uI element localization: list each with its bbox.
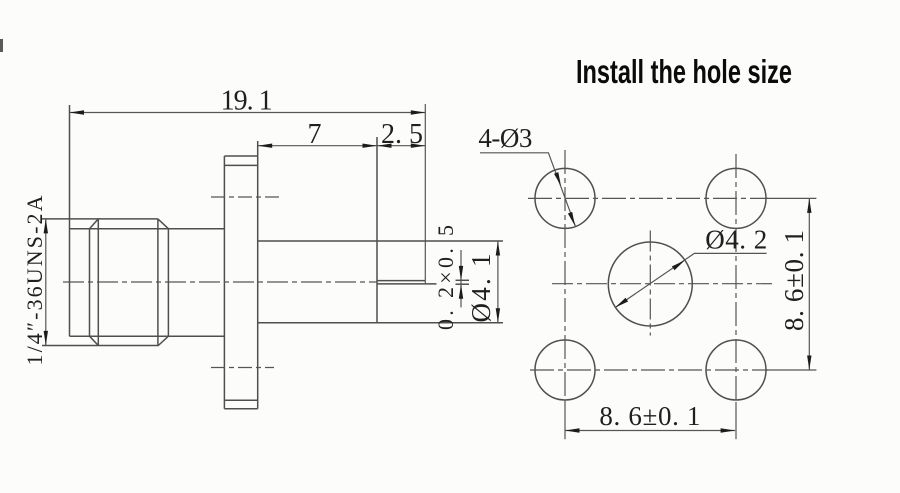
dielectric shaft	[258, 137, 503, 323]
middle row centerline	[552, 283, 772, 285]
flange plate	[224, 141, 257, 409]
svg-text:0. 2×0. 5: 0. 2×0. 5	[433, 225, 458, 330]
hex nut silhouette	[42, 219, 168, 346]
svg-text:Ø4. 1: Ø4. 1	[466, 254, 496, 323]
svg-text:1/4″-36UNS-2A: 1/4″-36UNS-2A	[22, 195, 47, 365]
arrowheads right view	[554, 172, 812, 433]
left column centerline	[564, 150, 566, 402]
mounting hole bottom-right	[706, 340, 766, 400]
label 4-diam3 leader	[480, 153, 576, 227]
diameter 4.2 leader	[615, 253, 766, 307]
mounting hole bottom-left	[535, 340, 595, 400]
thread callout dimension line	[45, 219, 47, 346]
stray mark at left edge	[0, 39, 3, 52]
diameter 4.1 dimension line	[497, 241, 499, 323]
flange hole centerline top	[211, 196, 279, 198]
right column centerline	[735, 154, 737, 402]
svg-text:Install the hole size: Install the hole size	[576, 53, 792, 90]
pin 0.2 dimension line	[460, 250, 462, 307]
svg-text:8. 6±0. 1: 8. 6±0. 1	[779, 230, 809, 331]
dimension 19.1 line	[70, 104, 426, 284]
svg-text:8. 6±0. 1: 8. 6±0. 1	[599, 401, 700, 431]
svg-text:Ø4. 2: Ø4. 2	[705, 224, 767, 254]
dimension 7 / 2.5 line	[258, 145, 426, 147]
axis centerline	[63, 281, 377, 283]
svg-text:2. 5: 2. 5	[381, 119, 423, 150]
svg-text:19. 1: 19. 1	[221, 86, 273, 117]
mounting hole top-right	[706, 168, 766, 228]
svg-text:7: 7	[308, 119, 322, 150]
svg-text:4-Ø3: 4-Ø3	[478, 123, 532, 153]
flange hole centerline bottom	[211, 367, 274, 369]
bottom row centerline	[530, 369, 768, 371]
mounting hole top-left	[535, 168, 595, 228]
dimension 8.6 right line	[808, 198, 810, 370]
hex corner chamfers	[90, 219, 169, 346]
connector body left rim / reference face	[70, 105, 225, 336]
center hole	[608, 242, 692, 326]
dimension 8.6 bottom line	[565, 430, 735, 432]
center pin tab	[377, 280, 469, 284]
middle column centerline	[649, 231, 651, 336]
dimension arrowheads left view	[44, 110, 501, 345]
top row centerline	[528, 197, 768, 199]
